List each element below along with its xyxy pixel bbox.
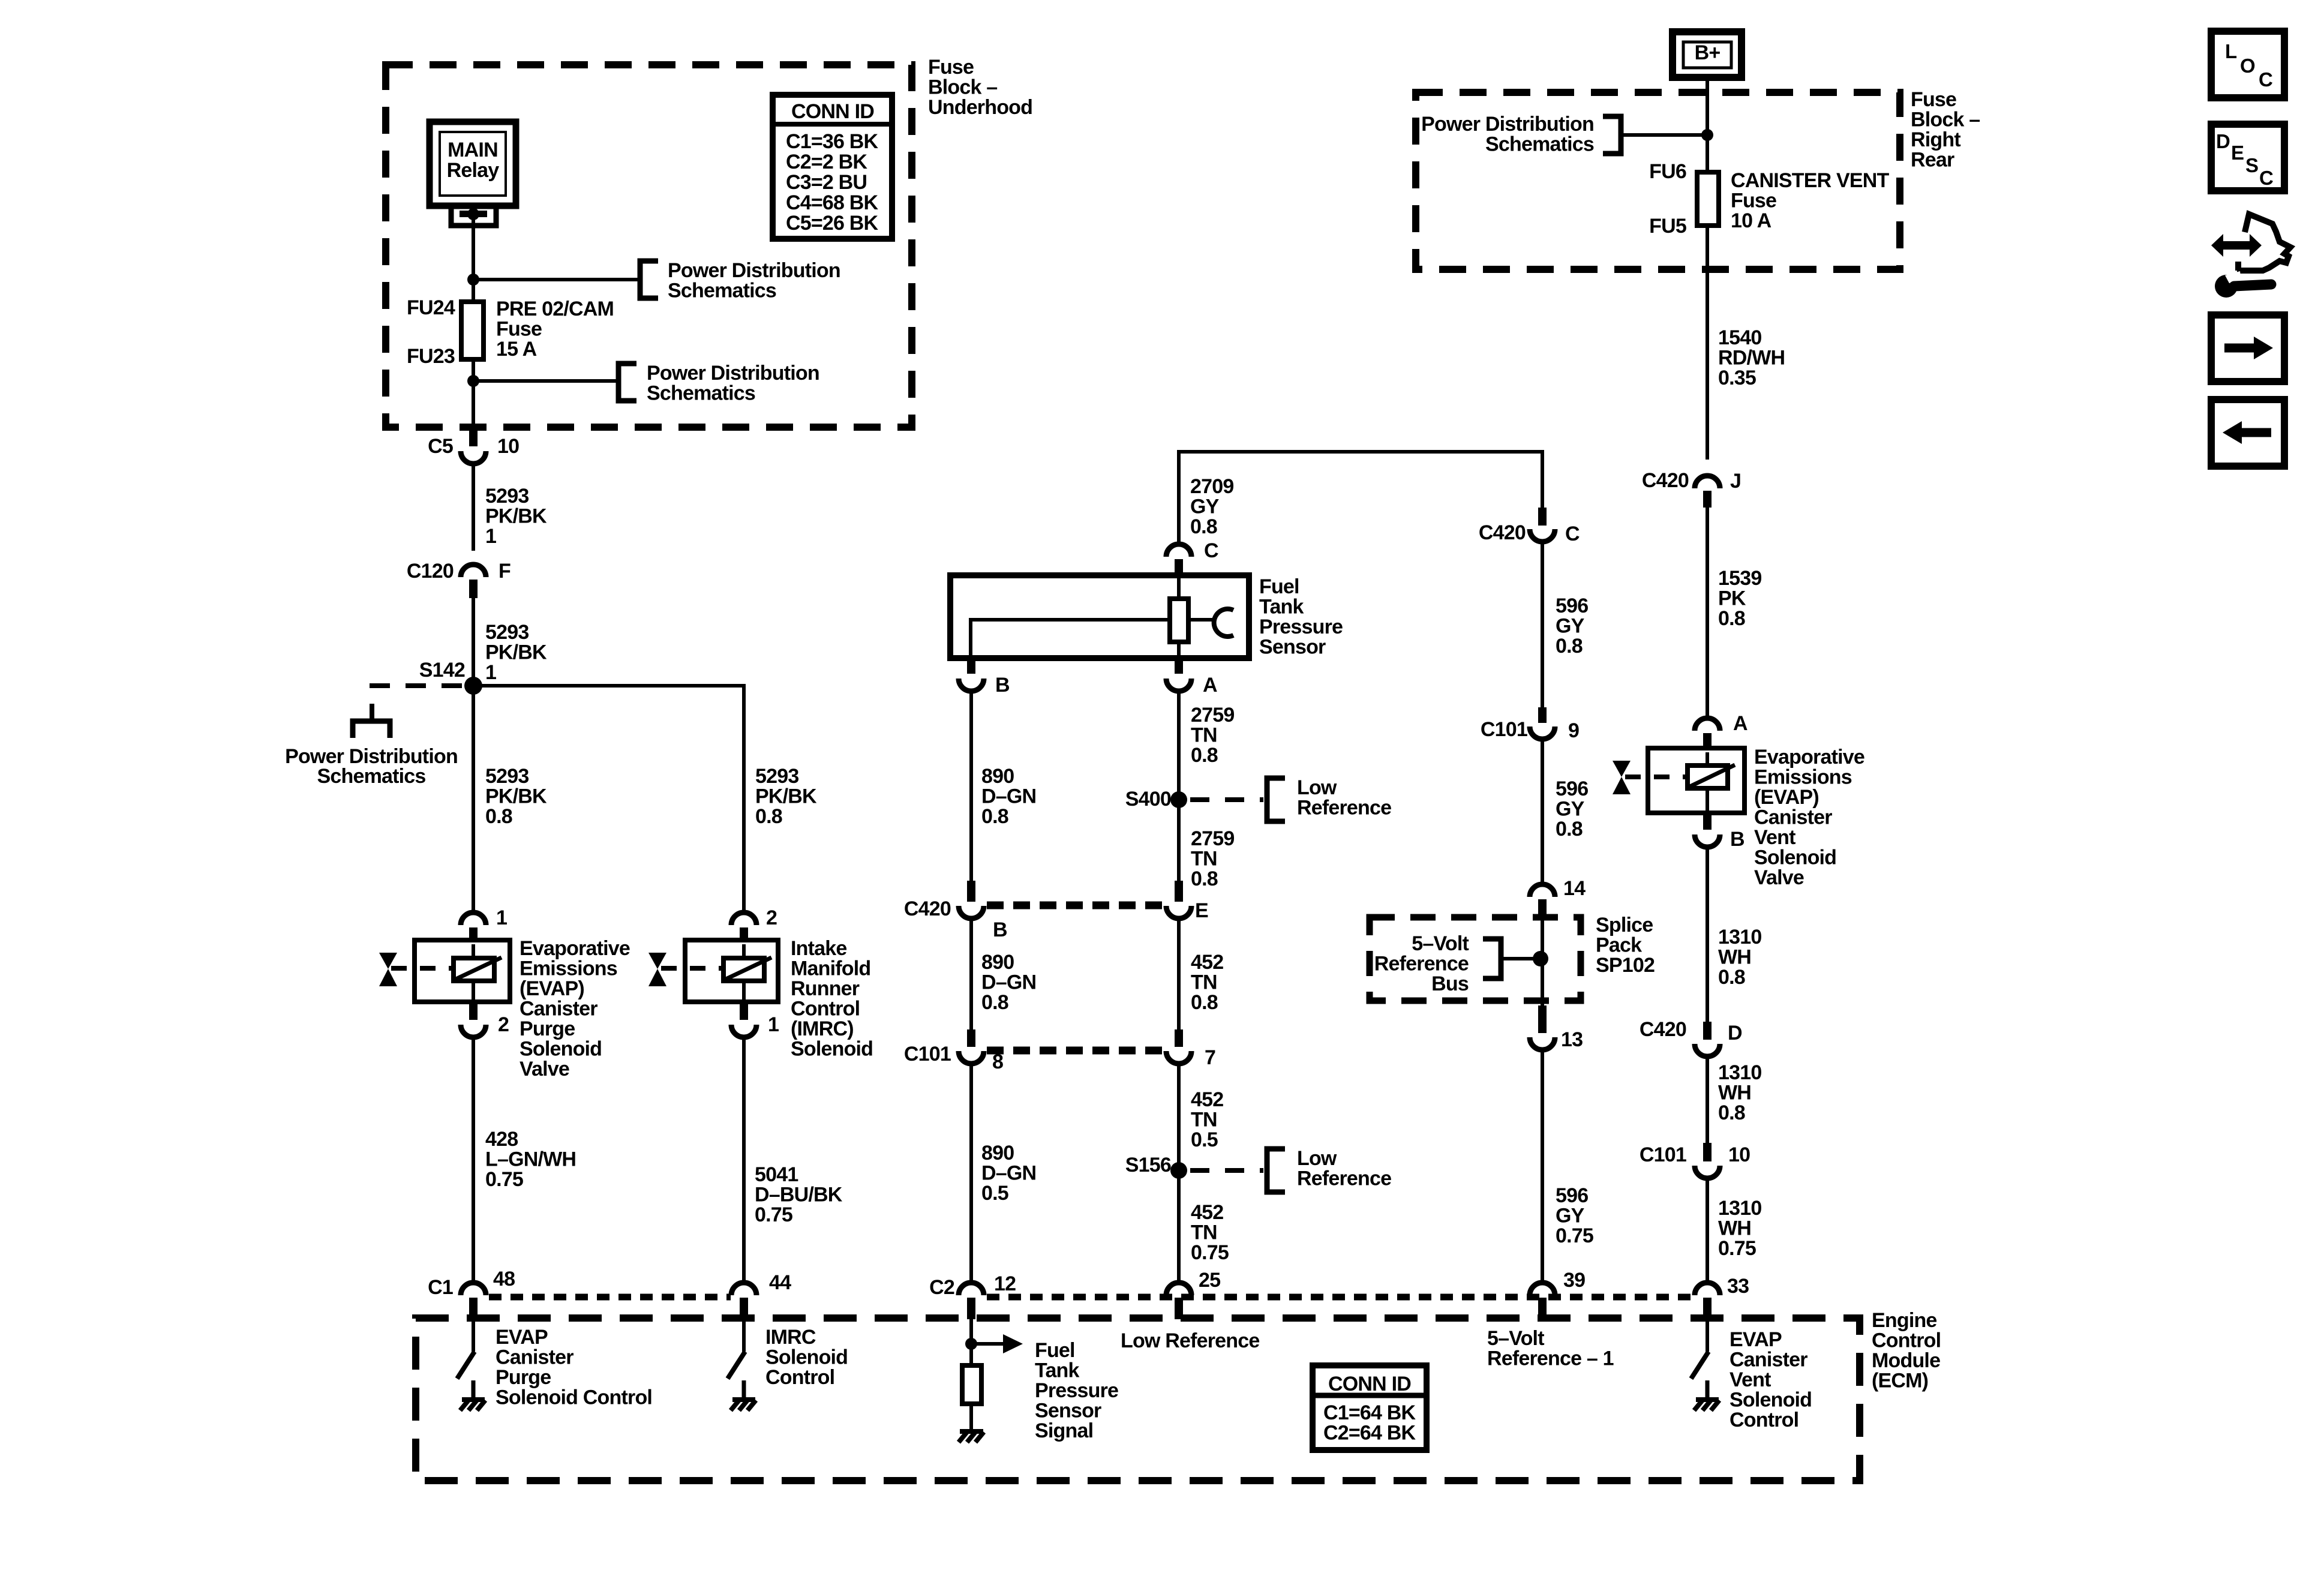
svg-text:0.8: 0.8: [1718, 1101, 1745, 1124]
svg-text:FU23: FU23: [407, 345, 455, 368]
svg-text:1540: 1540: [1718, 326, 1761, 349]
svg-text:Solenoid: Solenoid: [765, 1346, 848, 1369]
svg-text:TN: TN: [1191, 724, 1217, 747]
svg-text:(EVAP): (EVAP): [520, 977, 584, 1000]
wire label 5293 PK/BK 1 (2): [485, 621, 547, 684]
wire label 890 D-GN 0.5: [981, 1142, 1036, 1205]
svg-text:0.5: 0.5: [981, 1182, 1008, 1205]
wire junction to Power Distribution reference 2: [473, 379, 618, 383]
wire vent B to C420 D: [1706, 847, 1709, 1022]
svg-text:Solenoid: Solenoid: [520, 1038, 602, 1061]
svg-text:CONN ID: CONN ID: [791, 100, 874, 123]
svg-text:C: C: [1204, 539, 1218, 562]
label EVAP Canister Vent Solenoid Control: [1730, 1328, 1812, 1431]
svg-text:Right: Right: [1911, 128, 1960, 151]
svg-text:8: 8: [992, 1050, 1003, 1073]
label Engine Control Module (ECM): [1872, 1309, 1941, 1392]
svg-text:Reference: Reference: [1374, 953, 1469, 975]
label 5-Volt Reference - 1: [1487, 1327, 1614, 1370]
wire label 596 GY 0.75: [1556, 1184, 1593, 1247]
ECM driver switch pin 33: [1691, 1319, 1719, 1410]
svg-text:1: 1: [485, 525, 496, 548]
label IMRC Solenoid Control: [765, 1326, 848, 1389]
svg-text:1: 1: [496, 906, 507, 929]
connector pin A of sensor: [1166, 658, 1217, 697]
svg-text:C1: C1: [428, 1276, 453, 1299]
solenoid L: IMRC solenoid: [661, 940, 778, 1002]
wire label 5293 PK/BK 0.8 (right): [755, 765, 817, 828]
node: junction on B+ wire: [1701, 129, 1713, 141]
icon button LOC: [2211, 31, 2284, 98]
svg-text:1310: 1310: [1718, 1197, 1761, 1220]
wire label 2709 GY 0.8: [1190, 475, 1233, 538]
svg-text:C2=2 BK: C2=2 BK: [786, 151, 867, 173]
svg-text:0.8: 0.8: [981, 991, 1008, 1014]
svg-text:B+: B+: [1695, 41, 1721, 64]
splice S400: [1125, 788, 1187, 810]
svg-text:7: 7: [1205, 1046, 1215, 1069]
svg-text:TN: TN: [1191, 848, 1217, 870]
svg-text:(IMRC): (IMRC): [791, 1017, 854, 1040]
icon button DESC: [2211, 124, 2284, 191]
svg-text:1: 1: [768, 1013, 779, 1036]
svg-text:890: 890: [981, 1142, 1014, 1164]
connector pin 2 of EVAP purge solenoid: [461, 1002, 509, 1037]
svg-text:Valve: Valve: [1754, 866, 1804, 889]
svg-text:(ECM): (ECM): [1872, 1370, 1928, 1392]
wire B to C101 8: [969, 918, 973, 1029]
svg-text:PK/BK: PK/BK: [755, 785, 817, 808]
MAIN relay output terminal: [451, 206, 496, 226]
wire C120 to S142: [472, 598, 475, 686]
svg-text:FU24: FU24: [407, 296, 455, 319]
svg-text:0.5: 0.5: [1191, 1128, 1218, 1151]
svg-text:5293: 5293: [485, 765, 529, 788]
svg-text:10: 10: [497, 435, 519, 458]
label Evaporative Emissions (EVAP) Canister Vent Solenoid Valve: [1754, 746, 1864, 889]
svg-text:Power Distribution: Power Distribution: [1421, 113, 1594, 136]
svg-text:D–BU/BK: D–BU/BK: [755, 1184, 843, 1206]
wire B to C420 B: [969, 691, 973, 881]
svg-text:Purge: Purge: [520, 1017, 575, 1040]
svg-text:C4=68 BK: C4=68 BK: [786, 191, 879, 214]
svg-text:Low: Low: [1297, 1147, 1337, 1170]
svg-text:S156: S156: [1125, 1154, 1171, 1176]
svg-text:WH: WH: [1718, 946, 1751, 969]
svg-text:Block –: Block –: [1911, 109, 1980, 131]
svg-text:C420: C420: [904, 897, 951, 920]
dashed link S156 to Low Reference: [1190, 1168, 1263, 1173]
wire label 1540 RD/WH 0.35: [1718, 326, 1785, 389]
svg-text:Fuel: Fuel: [1259, 575, 1299, 598]
svg-text:Signal: Signal: [1035, 1419, 1093, 1442]
wire S156 to ECM 25: [1177, 1170, 1181, 1281]
wire label 2759 TN 0.8 (2): [1191, 827, 1234, 890]
connector C101 pin 9: [1481, 707, 1579, 742]
wire 8 to ECM C2 12: [969, 1064, 973, 1281]
label Fuse Block - Right Rear: [1911, 88, 1980, 172]
svg-text:PK/BK: PK/BK: [485, 641, 547, 664]
svg-text:Emissions: Emissions: [1754, 766, 1852, 789]
svg-text:Fuel: Fuel: [1035, 1339, 1075, 1362]
connector pin 1 of IMRC solenoid: [731, 1002, 779, 1037]
svg-text:0.8: 0.8: [755, 805, 782, 828]
svg-text:Control: Control: [791, 998, 860, 1020]
svg-text:39: 39: [1563, 1269, 1585, 1292]
svg-text:Power Distribution: Power Distribution: [647, 362, 819, 385]
icon: component location (car with arrow and wrench): [2211, 214, 2290, 298]
svg-text:S400: S400: [1125, 788, 1171, 810]
svg-text:Solenoid Control: Solenoid Control: [496, 1386, 652, 1409]
svg-text:CANISTER VENT: CANISTER VENT: [1731, 169, 1890, 192]
svg-text:GY: GY: [1556, 615, 1585, 638]
svg-text:Engine: Engine: [1872, 1309, 1937, 1332]
CONN ID table (underhood): [773, 95, 892, 239]
ECM input pin 12: sensor signal: [959, 1319, 1023, 1442]
svg-text:MAIN: MAIN: [448, 139, 498, 161]
svg-text:Sensor: Sensor: [1035, 1400, 1101, 1422]
connector C101 row dashed line: [987, 1047, 1163, 1055]
svg-text:TN: TN: [1191, 971, 1217, 994]
svg-text:C101: C101: [1481, 718, 1527, 741]
wire sensor C up and over to C420 C: [1179, 452, 1542, 542]
svg-text:1539: 1539: [1718, 567, 1761, 590]
svg-text:C1=64 BK: C1=64 BK: [1323, 1401, 1416, 1424]
svg-text:0.8: 0.8: [1191, 744, 1218, 767]
wire S142 right branch to IMRC: [473, 686, 744, 911]
svg-text:Solenoid: Solenoid: [1754, 846, 1836, 869]
svg-text:Pressure: Pressure: [1035, 1379, 1118, 1402]
fuse FU24/FU23: PRE 02/CAM Fuse 15 A: [407, 280, 614, 368]
connector C420 pin B: [904, 881, 1007, 941]
svg-text:Canister: Canister: [1730, 1349, 1807, 1371]
svg-text:RD/WH: RD/WH: [1718, 347, 1785, 370]
wire fuse block exit: [472, 381, 475, 427]
svg-text:A: A: [1733, 712, 1747, 735]
wire B+ into fuse block: [1706, 77, 1709, 135]
svg-text:SP102: SP102: [1596, 954, 1655, 977]
svg-text:Rear: Rear: [1911, 149, 1954, 172]
svg-text:Underhood: Underhood: [928, 96, 1032, 119]
CONN ID table (ECM): [1313, 1365, 1427, 1450]
wire label 1310 WH 0.8 (2): [1718, 1061, 1761, 1124]
wire label 890 D-GN 0.8: [981, 765, 1036, 828]
svg-text:Canister: Canister: [1754, 806, 1832, 829]
splice S142: [419, 659, 482, 695]
svg-text:FU6: FU6: [1649, 160, 1686, 183]
svg-text:C420: C420: [1642, 469, 1689, 492]
wire label 596 GY 0.8 (2): [1556, 778, 1588, 840]
svg-text:Reference: Reference: [1297, 1167, 1391, 1190]
svg-text:PK/BK: PK/BK: [485, 505, 547, 528]
svg-text:9: 9: [1568, 719, 1579, 742]
svg-text:14: 14: [1563, 877, 1586, 900]
off-page bracket: Power Distribution Schematics (lower): [618, 362, 819, 405]
svg-text:Vent: Vent: [1730, 1368, 1771, 1391]
svg-text:Bus: Bus: [1431, 972, 1469, 995]
svg-text:5–Volt: 5–Volt: [1487, 1327, 1544, 1350]
svg-text:Emissions: Emissions: [520, 957, 617, 980]
svg-text:TN: TN: [1191, 1109, 1217, 1131]
svg-text:0.8: 0.8: [1556, 818, 1583, 840]
connector C420 pin J: [1642, 469, 1741, 508]
5-Volt Reference Bus reference: [1374, 932, 1548, 995]
svg-text:GY: GY: [1190, 496, 1220, 518]
relay K: MAIN Relay: [430, 122, 516, 206]
svg-text:EVAP: EVAP: [1730, 1328, 1782, 1351]
svg-text:2759: 2759: [1191, 704, 1234, 727]
svg-text:Splice: Splice: [1596, 914, 1653, 936]
svg-text:F: F: [499, 560, 511, 583]
svg-text:1310: 1310: [1718, 1061, 1761, 1084]
svg-text:(EVAP): (EVAP): [1754, 786, 1819, 809]
fuse block right rear dashed box: [1416, 92, 1900, 269]
connector C420 pin C: [1479, 508, 1580, 545]
power feed B+: [1673, 32, 1742, 77]
svg-text:Purge: Purge: [496, 1366, 551, 1389]
svg-text:C101: C101: [904, 1043, 951, 1065]
svg-text:Schematics: Schematics: [647, 382, 755, 405]
svg-text:15 A: 15 A: [496, 338, 537, 361]
connector pin 25: [1166, 1269, 1220, 1319]
svg-text:0.8: 0.8: [981, 805, 1008, 828]
label Low Reference (pin 25): [1121, 1329, 1259, 1352]
wire relay to junction: [472, 214, 475, 280]
wire label 452 TN 0.75: [1191, 1201, 1229, 1264]
connector pin 33: [1695, 1275, 1749, 1319]
svg-text:44: 44: [769, 1271, 791, 1294]
connector pin B of sensor: [959, 658, 1010, 697]
label Fuse Block - Underhood: [928, 56, 1032, 119]
svg-text:Canister: Canister: [496, 1346, 574, 1369]
svg-text:IMRC: IMRC: [765, 1326, 816, 1349]
connector C101 pin 10: [1640, 1143, 1750, 1178]
svg-text:428: 428: [485, 1128, 518, 1151]
svg-text:E: E: [2231, 142, 2244, 164]
connector C120 pin F: [407, 560, 511, 598]
wire through splice pack: [1541, 918, 1544, 1005]
svg-text:PK: PK: [1718, 587, 1746, 610]
connector pin 14 (splice pack): [1530, 877, 1586, 918]
svg-text:EVAP: EVAP: [496, 1326, 548, 1349]
wire label 1310 WH 0.8: [1718, 926, 1761, 989]
wire label 1310 WH 0.75: [1718, 1197, 1761, 1260]
connector pin C of fuel tank pressure sensor: [1166, 539, 1218, 575]
off-page bracket: Power Distribution Schematics (upper): [640, 259, 840, 302]
wire 10 to ECM 33: [1706, 1178, 1709, 1281]
wire A to S400: [1177, 691, 1181, 800]
wire junction to Power Distribution reference 1: [473, 278, 640, 281]
svg-text:0.8: 0.8: [1190, 515, 1217, 538]
connector C101 pin 7: [1166, 1029, 1215, 1069]
svg-text:E: E: [1195, 899, 1208, 922]
svg-text:Valve: Valve: [520, 1058, 569, 1080]
wire S400 to C420 E: [1177, 800, 1181, 881]
svg-text:Fuse: Fuse: [1911, 88, 1956, 111]
svg-text:5–Volt: 5–Volt: [1412, 932, 1469, 955]
wire C to C101 9: [1541, 544, 1544, 707]
svg-text:Schematics: Schematics: [668, 280, 776, 302]
svg-text:0.75: 0.75: [1718, 1237, 1756, 1260]
svg-text:Manifold: Manifold: [791, 957, 870, 980]
off-page bracket: Low Reference (S156): [1267, 1147, 1391, 1192]
svg-text:C420: C420: [1479, 521, 1526, 544]
wire EVAP solenoid to ECM pin 48: [472, 1037, 475, 1281]
svg-text:2759: 2759: [1191, 827, 1234, 850]
label Splice Pack SP102: [1596, 914, 1655, 977]
svg-text:D–GN: D–GN: [981, 971, 1036, 994]
connector C5 pin 10: [428, 427, 519, 464]
connector pin 13 (splice pack): [1530, 1005, 1583, 1051]
svg-text:TN: TN: [1191, 1221, 1217, 1244]
svg-text:Canister: Canister: [520, 998, 597, 1020]
svg-text:C2: C2: [929, 1276, 954, 1299]
svg-text:L: L: [2225, 40, 2237, 62]
wire E to C101 7: [1177, 918, 1181, 1029]
wire label 890 D-GN 0.8 (2): [981, 951, 1036, 1014]
splice pack SP102 dashed box: [1370, 917, 1581, 1001]
svg-text:Pack: Pack: [1596, 934, 1642, 957]
connector C101 pin 8: [904, 1029, 1003, 1073]
svg-text:Schematics: Schematics: [317, 765, 426, 788]
svg-text:FU5: FU5: [1649, 215, 1686, 238]
connector pin 39: [1530, 1269, 1585, 1319]
connector C420 pin E: [1166, 881, 1208, 922]
svg-text:Solenoid: Solenoid: [1730, 1389, 1812, 1412]
svg-text:B: B: [993, 918, 1007, 941]
svg-text:A: A: [1203, 674, 1217, 697]
valve symbol (EVAP purge): [379, 953, 397, 986]
svg-text:Solenoid: Solenoid: [791, 1038, 873, 1061]
svg-text:Runner: Runner: [791, 977, 860, 1000]
connector pin 2 of IMRC solenoid: [731, 906, 777, 942]
svg-text:Module: Module: [1872, 1349, 1940, 1372]
svg-text:5293: 5293: [485, 485, 529, 508]
connector pin 1 of EVAP purge solenoid: [461, 906, 507, 942]
svg-text:Control: Control: [1730, 1409, 1798, 1431]
svg-text:Evaporative: Evaporative: [1754, 746, 1864, 769]
svg-text:1310: 1310: [1718, 926, 1761, 948]
svg-text:Reference – 1: Reference – 1: [1487, 1347, 1614, 1370]
svg-text:Control: Control: [765, 1366, 834, 1389]
svg-text:C3=2 BU: C3=2 BU: [786, 171, 867, 194]
svg-text:33: 33: [1727, 1275, 1749, 1298]
wire 9 to splice pack pin 14: [1541, 742, 1544, 882]
svg-text:D: D: [1728, 1022, 1742, 1044]
svg-text:CONN ID: CONN ID: [1328, 1373, 1411, 1395]
svg-text:Reference: Reference: [1297, 797, 1391, 819]
svg-text:PRE 02/CAM: PRE 02/CAM: [496, 298, 614, 320]
wire label 452 TN 0.5: [1191, 1088, 1223, 1151]
node: junction below fuse: [467, 375, 479, 387]
wire label 596 GY 0.8: [1556, 595, 1588, 658]
svg-text:0.75: 0.75: [1556, 1224, 1593, 1247]
valve symbol (EVAP vent): [1613, 761, 1631, 794]
wire J to vent solenoid A: [1706, 508, 1709, 716]
svg-text:Sensor: Sensor: [1259, 636, 1326, 659]
label Intake Manifold Runner Control (IMRC) Solenoid: [791, 937, 873, 1061]
icon button: next arrow: [2211, 315, 2284, 382]
svg-text:Fuse: Fuse: [928, 56, 974, 79]
svg-text:1: 1: [485, 661, 496, 684]
svg-text:C420: C420: [1640, 1018, 1686, 1041]
label EVAP Canister Purge Solenoid Control: [496, 1326, 652, 1409]
svg-text:Fuse: Fuse: [496, 318, 542, 341]
off-page bracket: Power Distribution Schematics (right rear): [1421, 113, 1707, 156]
wire IMRC solenoid to ECM pin 44: [742, 1037, 746, 1281]
svg-text:J: J: [1730, 470, 1741, 493]
svg-text:2: 2: [498, 1013, 509, 1036]
connector C2 pin 12: [929, 1272, 1016, 1319]
dashed link S400 to Low Reference: [1190, 797, 1263, 802]
solenoid L: EVAP canister purge solenoid valve: [391, 940, 510, 1002]
svg-text:WH: WH: [1718, 1082, 1751, 1104]
solenoid L: EVAP canister vent solenoid valve: [1625, 748, 1744, 813]
svg-text:Schematics: Schematics: [1485, 133, 1594, 156]
fuse block underhood dashed box: [386, 65, 912, 427]
svg-text:5293: 5293: [485, 621, 529, 644]
svg-text:10: 10: [1728, 1143, 1750, 1166]
svg-text:0.35: 0.35: [1718, 367, 1756, 389]
svg-text:48: 48: [493, 1268, 515, 1290]
svg-text:12: 12: [994, 1272, 1016, 1295]
svg-text:C2=64 BK: C2=64 BK: [1323, 1422, 1416, 1445]
svg-text:Pressure: Pressure: [1259, 616, 1343, 638]
svg-text:0.8: 0.8: [485, 805, 512, 828]
svg-text:S142: S142: [419, 659, 465, 682]
svg-text:Tank: Tank: [1035, 1359, 1080, 1382]
svg-text:C5=26 BK: C5=26 BK: [786, 212, 879, 235]
ECM driver switch pin 44: [728, 1319, 756, 1410]
svg-text:0.75: 0.75: [1191, 1241, 1229, 1264]
svg-text:Low Reference: Low Reference: [1121, 1329, 1259, 1352]
connector pin 44: [731, 1271, 791, 1319]
svg-text:0.8: 0.8: [1191, 991, 1218, 1014]
connector pin A of EVAP vent solenoid: [1695, 712, 1747, 748]
connector pin B of EVAP vent solenoid: [1695, 813, 1744, 851]
svg-text:D–GN: D–GN: [981, 1162, 1036, 1185]
svg-text:452: 452: [1191, 1201, 1223, 1224]
wire C5 to C120: [472, 464, 475, 551]
svg-text:452: 452: [1191, 1088, 1223, 1111]
svg-text:Fuse: Fuse: [1731, 190, 1776, 212]
svg-text:C: C: [2259, 68, 2272, 91]
svg-text:10 A: 10 A: [1731, 209, 1771, 232]
svg-text:596: 596: [1556, 595, 1588, 617]
svg-text:S: S: [2245, 154, 2258, 176]
svg-text:890: 890: [981, 951, 1014, 974]
splice S156: [1125, 1154, 1187, 1179]
fuse FU6/FU5: CANISTER VENT Fuse 10 A: [1649, 135, 1889, 238]
svg-text:452: 452: [1191, 951, 1223, 974]
wire label 452 TN 0.8: [1191, 951, 1223, 1014]
svg-text:Power Distribution: Power Distribution: [668, 259, 840, 282]
svg-text:25: 25: [1199, 1269, 1220, 1292]
svg-text:5293: 5293: [755, 765, 798, 788]
svg-text:Intake: Intake: [791, 937, 846, 960]
svg-text:C5: C5: [428, 435, 453, 458]
label Evaporative Emissions (EVAP) Canister Purge Solenoid Valve: [520, 937, 630, 1080]
svg-text:Vent: Vent: [1754, 826, 1795, 849]
svg-text:O: O: [2240, 55, 2255, 77]
svg-text:0.8: 0.8: [1191, 867, 1218, 890]
svg-text:890: 890: [981, 765, 1014, 788]
connector C420 row dashed line: [987, 902, 1163, 909]
svg-text:0.75: 0.75: [485, 1168, 523, 1191]
svg-text:2709: 2709: [1190, 475, 1233, 498]
svg-text:B: B: [995, 674, 1010, 697]
svg-text:2: 2: [766, 906, 777, 929]
